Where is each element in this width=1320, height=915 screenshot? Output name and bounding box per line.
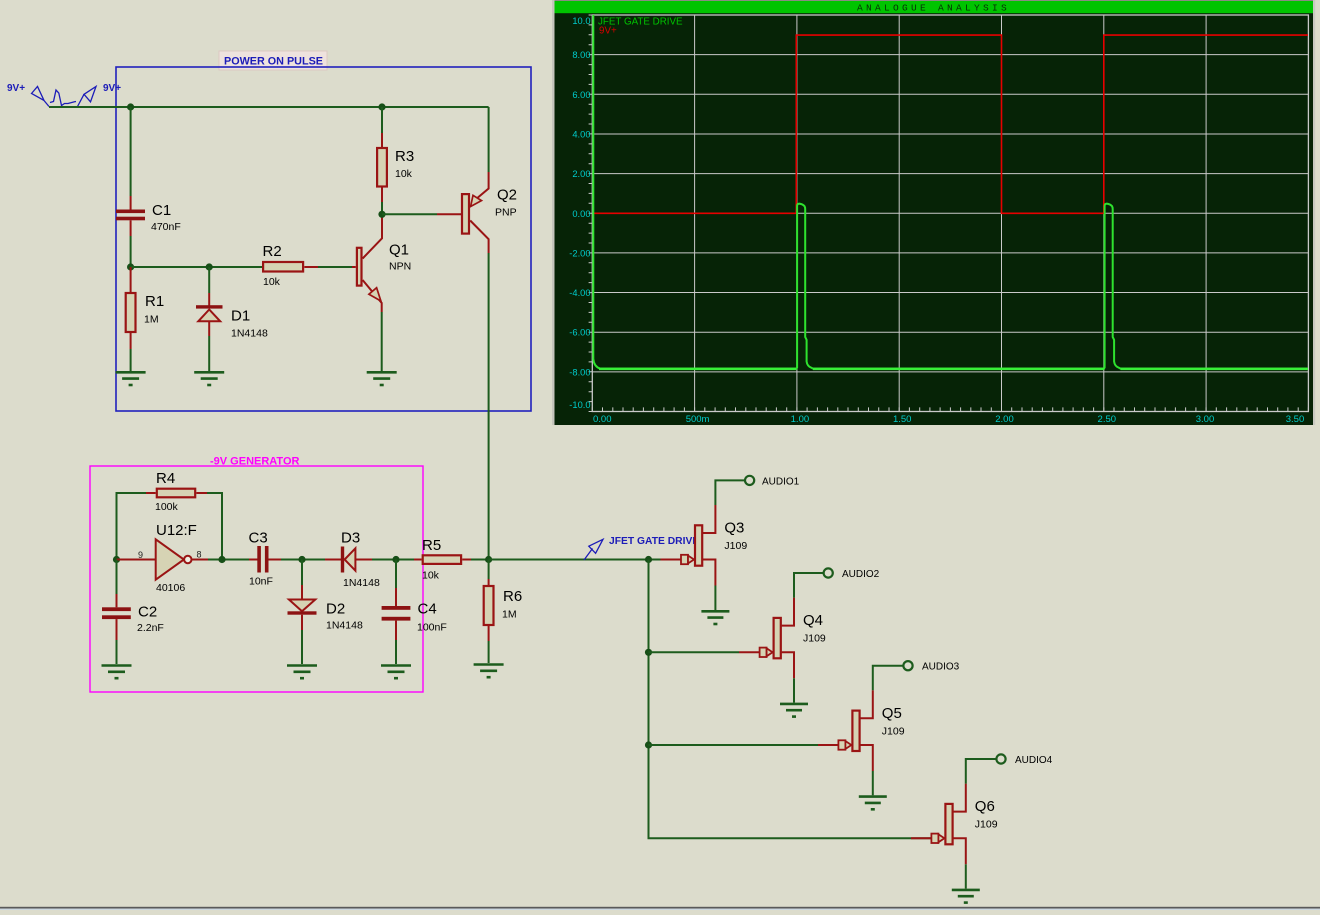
trace 9V+ red xyxy=(593,35,1308,213)
node inverter input xyxy=(113,556,120,563)
svg-text:C3: C3 xyxy=(249,530,268,547)
resistor R6 xyxy=(484,579,522,641)
resistor R2 xyxy=(263,243,319,288)
svg-text:Q6: Q6 xyxy=(975,798,995,815)
title bar xyxy=(554,1,1313,14)
wire R2 to Q1 xyxy=(318,266,352,268)
plot grid xyxy=(592,15,1308,412)
wire D3 to C4 node xyxy=(372,559,414,561)
wire D2 gnd xyxy=(301,630,303,664)
terminal AUDIO2 xyxy=(824,568,880,580)
svg-text:-10.0: -10.0 xyxy=(569,400,590,410)
capacitor C2 xyxy=(102,594,164,640)
node R6 xyxy=(485,556,492,563)
svg-text:1N4148: 1N4148 xyxy=(343,577,380,589)
capacitor C4 xyxy=(382,588,447,640)
wire Q5 drain xyxy=(873,666,904,691)
wire to Q2 base xyxy=(382,213,437,215)
svg-text:U12:F: U12:F xyxy=(156,522,197,539)
node Q1 collector / Q2 base xyxy=(378,211,385,218)
svg-text:AUDIO1: AUDIO1 xyxy=(762,476,800,487)
svg-text:J109: J109 xyxy=(724,540,747,552)
svg-text:100nF: 100nF xyxy=(417,622,447,634)
y minor ticks xyxy=(589,15,593,412)
wire Q2 emitter drop xyxy=(488,107,490,172)
ground C4 xyxy=(381,666,411,679)
svg-text:9: 9 xyxy=(138,550,143,560)
wire R4 left to input xyxy=(117,493,147,560)
svg-text:R4: R4 xyxy=(156,470,175,487)
svg-text:D1: D1 xyxy=(231,308,250,325)
transistor Q4 xyxy=(739,598,826,679)
svg-text:POWER ON PULSE: POWER ON PULSE xyxy=(224,56,323,68)
svg-text:8.00: 8.00 xyxy=(572,50,590,60)
wire Q4 drain xyxy=(794,573,824,598)
svg-text:470nF: 470nF xyxy=(151,221,181,233)
svg-text:PNP: PNP xyxy=(495,207,517,219)
svg-text:-9V GENERATOR: -9V GENERATOR xyxy=(210,456,299,468)
svg-text:4.00: 4.00 xyxy=(572,130,590,140)
wire R6 gnd xyxy=(488,641,490,663)
subcircuit box -9V GENERATOR xyxy=(90,456,423,693)
x minor ticks xyxy=(592,407,1308,411)
svg-text:8: 8 xyxy=(197,550,202,560)
node C4 xyxy=(392,556,399,563)
svg-text:0.00: 0.00 xyxy=(593,414,612,425)
svg-text:10k: 10k xyxy=(263,276,281,288)
plot frame xyxy=(592,15,1308,412)
diode D3 xyxy=(325,530,380,590)
wire inverter out xyxy=(208,559,249,561)
transistor Q1 xyxy=(352,216,411,312)
svg-text:JFET GATE DRIVE: JFET GATE DRIVE xyxy=(609,536,699,547)
wire C2 gnd xyxy=(116,640,118,664)
svg-text:R6: R6 xyxy=(503,588,522,605)
svg-text:C1: C1 xyxy=(152,202,171,219)
svg-text:R1: R1 xyxy=(145,293,164,310)
svg-text:Q3: Q3 xyxy=(724,520,744,537)
svg-text:1.50: 1.50 xyxy=(893,414,912,425)
wire R3 top xyxy=(381,107,383,133)
svg-text:10k: 10k xyxy=(422,570,440,582)
capacitor C1 xyxy=(116,196,181,236)
power flag squiggle xyxy=(50,90,76,106)
resistor R3 xyxy=(377,133,414,202)
transistor Q2 xyxy=(437,172,517,253)
wire D2 top xyxy=(301,560,303,586)
svg-text:6.00: 6.00 xyxy=(572,90,590,100)
ground R1 xyxy=(116,372,146,385)
resistor R1 xyxy=(126,267,164,349)
svg-text:100k: 100k xyxy=(155,501,179,513)
svg-text:500m: 500m xyxy=(686,414,710,425)
svg-text:1N4148: 1N4148 xyxy=(326,620,363,632)
svg-text:D2: D2 xyxy=(326,601,345,618)
svg-text:-8.00: -8.00 xyxy=(569,367,590,377)
wire Q6 drain xyxy=(966,759,997,784)
power flag 9V+ left xyxy=(7,83,49,107)
ground Q1 xyxy=(367,372,397,385)
svg-text:10nF: 10nF xyxy=(249,576,273,588)
analysis window ANALOGUE ANALYSIS xyxy=(554,0,1313,425)
svg-text:-4.00: -4.00 xyxy=(569,288,590,298)
svg-text:1M: 1M xyxy=(502,609,517,621)
wire Q1 emitter gnd xyxy=(381,312,383,371)
wire R3 bottom xyxy=(381,202,383,214)
svg-text:J109: J109 xyxy=(803,633,826,645)
svg-text:Q2: Q2 xyxy=(497,187,517,204)
svg-text:D3: D3 xyxy=(341,530,360,547)
wire C1 bottom xyxy=(130,236,132,267)
svg-text:10.0: 10.0 xyxy=(572,16,590,26)
capacitor C3 xyxy=(249,530,282,588)
wire C4 top xyxy=(395,560,397,589)
svg-text:Q4: Q4 xyxy=(803,612,823,629)
wire Q4 source gnd xyxy=(793,678,795,702)
wire R1 gnd xyxy=(130,349,132,371)
diode D1 xyxy=(196,267,268,340)
svg-text:-6.00: -6.00 xyxy=(569,328,590,338)
svg-text:R5: R5 xyxy=(422,537,441,554)
wire C4 gnd xyxy=(395,640,397,664)
svg-text:Q1: Q1 xyxy=(389,242,409,259)
ground D1 xyxy=(194,372,224,385)
wire C2 top xyxy=(116,560,118,595)
ground Q5 xyxy=(859,797,887,810)
wire label JFET GATE DRIVE xyxy=(584,536,699,560)
node base row left xyxy=(127,263,134,270)
trace green baseline emphasis xyxy=(599,368,1308,371)
transistor Q3 xyxy=(661,505,748,586)
diode D2 xyxy=(288,585,363,632)
ground D2 xyxy=(287,666,317,679)
wire C1 top xyxy=(130,107,132,196)
svg-text:1.00: 1.00 xyxy=(791,414,810,425)
svg-text:9V+: 9V+ xyxy=(599,26,617,37)
x axis labels xyxy=(593,414,1304,425)
svg-text:2.2nF: 2.2nF xyxy=(137,622,164,634)
svg-text:9V+: 9V+ xyxy=(7,83,25,94)
wire Q3 drain xyxy=(715,480,745,505)
svg-text:R2: R2 xyxy=(263,243,282,260)
svg-text:2.50: 2.50 xyxy=(1098,414,1117,425)
ground Q6 xyxy=(952,890,980,903)
node inverter output xyxy=(218,556,225,563)
svg-text:J109: J109 xyxy=(975,819,998,831)
node trunk Q5 xyxy=(645,741,652,748)
wire gate Q5 xyxy=(649,744,819,746)
node D1 xyxy=(206,263,213,270)
inverter U12:F xyxy=(117,522,209,594)
transistor Q6 xyxy=(911,784,998,865)
svg-text:10k: 10k xyxy=(395,168,413,180)
svg-text:1N4148: 1N4148 xyxy=(231,328,268,340)
bottom statusbar line xyxy=(0,907,1320,910)
wire Q5 source gnd xyxy=(872,771,874,795)
wire C3 to D3 node xyxy=(281,559,325,561)
wire R4 right to output xyxy=(207,493,222,560)
wire trunk vertical xyxy=(649,560,931,839)
svg-text:9V+: 9V+ xyxy=(103,83,121,94)
svg-text:2.00: 2.00 xyxy=(572,169,590,179)
power flag 9V+ right xyxy=(78,83,122,107)
y axis labels xyxy=(569,16,590,410)
svg-text:AUDIO4: AUDIO4 xyxy=(1015,755,1053,766)
svg-text:3.50: 3.50 xyxy=(1286,414,1305,425)
wire R5 to node xyxy=(471,559,489,561)
window left border xyxy=(552,0,555,425)
svg-text:Q5: Q5 xyxy=(882,705,902,722)
resistor R4 xyxy=(146,470,207,513)
svg-text:C4: C4 xyxy=(418,601,437,618)
svg-text:NPN: NPN xyxy=(389,261,411,273)
svg-text:J109: J109 xyxy=(882,725,905,737)
svg-text:1M: 1M xyxy=(144,314,159,326)
wire gate Q4 xyxy=(649,651,740,653)
wire Q2 collector long vertical xyxy=(488,253,490,560)
wire 9V rail xyxy=(49,106,489,108)
svg-text:0.00: 0.00 xyxy=(572,209,590,219)
terminal AUDIO3 xyxy=(903,661,959,672)
wire Q3 source gnd xyxy=(714,586,716,611)
resistor R5 xyxy=(414,537,471,582)
svg-text:3.00: 3.00 xyxy=(1196,414,1215,425)
terminal AUDIO4 xyxy=(996,754,1052,766)
trace JFET GATE DRIVE green xyxy=(593,15,1308,369)
subcircuit box POWER ON PULSE xyxy=(116,51,531,411)
node trunk Q4 xyxy=(645,649,652,656)
svg-text:AUDIO2: AUDIO2 xyxy=(842,569,880,580)
svg-text:-2.00: -2.00 xyxy=(569,248,590,258)
ground C2 xyxy=(102,666,132,679)
svg-text:2.00: 2.00 xyxy=(995,414,1014,425)
wire Q6 source gnd xyxy=(965,864,967,888)
ground Q4 xyxy=(780,704,808,717)
wire gate rail xyxy=(489,559,661,561)
window right border xyxy=(1313,0,1315,425)
wire R6 top xyxy=(488,560,490,580)
svg-text:C2: C2 xyxy=(138,604,157,621)
svg-text:40106: 40106 xyxy=(156,582,185,594)
node rail/C1 xyxy=(127,103,134,110)
wire base row xyxy=(131,266,262,268)
wire D1 gnd xyxy=(208,336,210,371)
terminal AUDIO1 xyxy=(745,476,800,488)
svg-text:ANALOGUE ANALYSIS: ANALOGUE ANALYSIS xyxy=(857,3,1010,14)
node rail/R3 xyxy=(378,103,385,110)
node gate trunk top xyxy=(645,556,652,563)
ground Q3 xyxy=(701,611,729,624)
svg-text:AUDIO3: AUDIO3 xyxy=(922,662,960,673)
svg-text:R3: R3 xyxy=(395,148,414,165)
node D2 xyxy=(298,556,305,563)
ground R6 xyxy=(474,665,504,678)
transistor Q5 xyxy=(818,690,905,771)
